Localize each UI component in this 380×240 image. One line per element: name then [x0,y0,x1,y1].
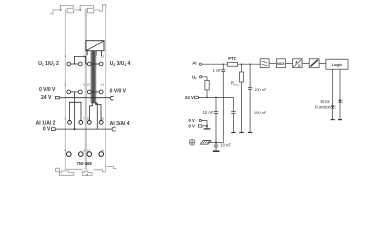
svg-text:U1 1/U2 2: U1 1/U2 2 [38,61,59,67]
schematic labels [185,60,197,128]
LED status [339,100,343,103]
LED error function [331,106,335,109]
internal ground bar [204,128,211,130]
junction shield node dot [215,142,217,144]
wire Uv to resistor [202,77,207,81]
Logic box U3 [326,59,348,69]
bus bar end right LED line [338,119,342,121]
wire junction to internal ground [206,126,208,128]
module housing top outline [50,5,106,14]
capacitor C4 100nF upper [248,64,252,132]
wire A/D to isolation [302,62,309,64]
module housing top notches [60,9,81,11]
row1 wire c3-c4 [86,63,100,65]
MUX box [276,59,285,68]
svg-text:AI: AI [192,60,196,65]
svg-text:0 V/0 V: 0 V/0 V [39,87,56,93]
svg-text:PTC: PTC [228,56,236,61]
terminal circles row4 [67,152,104,157]
wire isolation to Logic [319,62,326,64]
0V plug terminal [198,125,202,128]
node AI terminal [199,63,201,65]
0V distribution vertical [74,92,76,129]
terminal circles row3 [68,121,104,125]
capacitor C1 10nF upper [214,97,218,142]
stubs under converter box [87,51,101,57]
module housing bottom outline [56,166,117,175]
24V feed line [59,97,110,99]
wire 24V rail [198,96,233,98]
svg-text:U3 3/U4 4: U3 3/U4 4 [110,61,131,67]
svg-text:Function: Function [315,105,332,110]
svg-text:0 V: 0 V [43,127,51,133]
net labels left column (U1 1/U2 2, 0V/0V, 24V, AI 1/AI 2, 0V) [36,61,59,133]
internal contact bar (dark) [90,51,96,104]
row2 wire c1-c2 [71,91,79,93]
svg-text:AI 3/AI 4: AI 3/AI 4 [110,121,130,127]
terminal circles row2 [67,90,103,94]
24V plug symbol [55,96,59,99]
wire MUX to A/D [285,62,292,64]
converter box with diagonal (module symbol) [86,41,104,51]
0V junction dot [74,128,76,130]
junction dots 24V rail [206,97,208,99]
svg-text:Uv: Uv [192,74,197,80]
wire PTC to filter [238,63,261,65]
svg-text:100 nF: 100 nF [254,110,267,115]
wire Logic to error LED [332,69,334,119]
wire AI to PTC [202,63,228,65]
svg-text:100 nF: 100 nF [254,87,267,92]
wire shield to caps node [208,142,223,144]
terminal pin numbers [65,54,105,152]
junction dots AI line [223,63,225,65]
galvanic isolation box [309,59,319,68]
svg-text:0 V: 0 V [188,124,195,129]
svg-text:Logic: Logic [332,62,343,67]
capacitor C5 10nF to earth [213,143,220,152]
0V pass socket arc [112,127,115,131]
wire Logic to status LED [339,69,341,119]
svg-text:0 V/0 V: 0 V/0 V [110,88,127,94]
svg-text:0 V: 0 V [188,118,195,123]
wire bracket row3 c1-c2 [70,102,82,120]
wire filter to MUX [269,62,276,64]
svg-text:10 nF: 10 nF [203,110,214,115]
node 0V circle terminal [199,119,201,121]
bus bar end left LED line [331,119,335,121]
capacitor C2 1nF [221,64,225,142]
bottom lock tick [86,174,88,175]
net labels right column (U3 3/U4 4, 0V/0V, AI 3/AI 4) [110,61,131,127]
24V pass socket arc [110,96,113,100]
svg-text:1 nF: 1 nF [213,68,222,73]
svg-text:24 V: 24 V [185,95,194,100]
wire bar ground drop [96,103,98,129]
capacitor C3 100nF lower [231,97,235,132]
resistor R2 shunt [239,64,243,132]
wire bar to row3 c4 [96,103,101,121]
0V feed line [55,128,112,130]
row1 wire c1-c2 [71,63,79,65]
A/D converter box [293,59,303,68]
module vertical case lines [65,9,105,172]
svg-text:Error: Error [320,99,330,104]
bar bottom hook [93,102,97,104]
wire 0V plug to junction [202,125,207,127]
wire 0V circle to junction [202,121,208,126]
wire resistor to 24V rail [206,90,208,98]
rail earth symbol [189,139,195,145]
terminal circles row1 [67,62,103,66]
resistor R1 Uv dropper [205,80,209,90]
junction 0V dot [206,125,208,127]
0V plug symbol [51,128,55,131]
node Uv terminal [199,76,201,78]
row2 wire c3-c4 [91,91,99,93]
row1 jumper bracket [75,56,86,64]
svg-text:24 V: 24 V [41,95,52,101]
filter box U2 [260,59,269,68]
svg-text:10 nF: 10 nF [220,143,231,148]
wire bar to row3 c3 [90,103,93,121]
svg-text:750-468: 750-468 [76,161,92,166]
resistor PTC [227,62,237,66]
svg-text:MUX: MUX [277,62,285,66]
24V plug terminal [195,96,199,99]
shield symbol [200,141,211,145]
